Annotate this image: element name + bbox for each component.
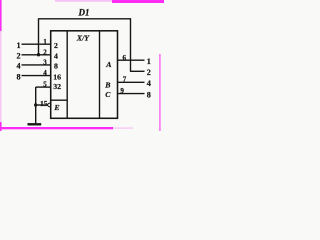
svg-text:4: 4 (54, 52, 58, 61)
node junction on pin-15 wire (34, 103, 37, 106)
svg-text:16: 16 (53, 72, 61, 81)
node junction on input-2 wire (37, 53, 40, 56)
output label 2 (147, 68, 151, 77)
svg-text:E: E (53, 103, 59, 112)
svg-text:8: 8 (17, 72, 21, 81)
weight label 32 (53, 82, 61, 91)
pin number 4 (43, 69, 47, 77)
IC left section divider (66, 31, 68, 119)
weight label 16 (53, 72, 61, 81)
pin number 5 (43, 81, 47, 89)
svg-text:A: A (105, 60, 111, 69)
svg-text:2: 2 (147, 68, 151, 77)
pin number 7 (123, 76, 127, 84)
weight label 2 (54, 41, 58, 50)
input label 1 (17, 41, 21, 50)
svg-text:4: 4 (147, 79, 151, 88)
pin number 15 (40, 99, 48, 108)
pin number 6 (123, 54, 127, 62)
IC function label X/Y (76, 34, 90, 43)
input label 2 (17, 52, 21, 61)
svg-text:D1: D1 (78, 8, 90, 18)
wire input 4 (22, 64, 52, 66)
wire output B pin 7 (117, 81, 145, 83)
svg-text:15: 15 (40, 99, 48, 108)
output label A (105, 60, 111, 69)
wire ground vertical (35, 87, 37, 124)
wire output bypass 2 (130, 70, 145, 72)
svg-text:C: C (105, 90, 111, 99)
IC enable-box divider (51, 99, 67, 101)
negation bubble on E input (48, 103, 51, 106)
wire left bypass vertical (38, 18, 40, 54)
wire input 2 (22, 54, 52, 56)
pin number 9 (120, 87, 124, 95)
output label 1 (147, 57, 151, 66)
weight label 8 (54, 62, 58, 71)
enable label E (53, 103, 59, 112)
output label 4 (147, 79, 151, 88)
svg-text:5: 5 (43, 81, 47, 89)
svg-text:1: 1 (17, 41, 21, 50)
svg-text:8: 8 (147, 90, 151, 99)
IC U1 body (51, 31, 118, 119)
IC right section divider (99, 31, 101, 119)
svg-text:32: 32 (53, 82, 61, 91)
input label 8 (17, 72, 21, 81)
svg-text:2: 2 (54, 41, 58, 50)
output label 8 (147, 90, 151, 99)
label D1 (78, 8, 90, 18)
svg-text:4: 4 (17, 62, 21, 71)
wire right bypass vertical (130, 18, 132, 71)
svg-text:1: 1 (43, 38, 47, 46)
wire input 1 (22, 43, 52, 45)
svg-text:B: B (104, 80, 110, 89)
svg-text:9: 9 (120, 87, 124, 95)
wire input pin 15 (36, 104, 48, 106)
pin number 3 (43, 59, 47, 67)
wire output A pin 6 (117, 59, 145, 61)
svg-text:X/Y: X/Y (76, 34, 90, 43)
svg-text:1: 1 (147, 57, 151, 66)
svg-text:2: 2 (43, 48, 47, 56)
svg-text:6: 6 (123, 54, 127, 62)
output label B (104, 80, 110, 89)
svg-text:2: 2 (17, 52, 21, 61)
wire input pin 5 (36, 86, 51, 88)
wire output C pin 9 (117, 93, 145, 95)
ground (28, 123, 42, 125)
svg-text:8: 8 (54, 62, 58, 71)
svg-text:4: 4 (43, 69, 47, 77)
input label 4 (17, 62, 21, 71)
weight label 4 (54, 52, 58, 61)
output label C (105, 90, 111, 99)
pin number 2 (43, 48, 47, 56)
pin number 1 (43, 38, 47, 46)
wire input 8 (22, 75, 52, 77)
svg-text:7: 7 (123, 76, 127, 84)
svg-text:3: 3 (43, 59, 47, 67)
wire top bypass horizontal (39, 18, 132, 20)
